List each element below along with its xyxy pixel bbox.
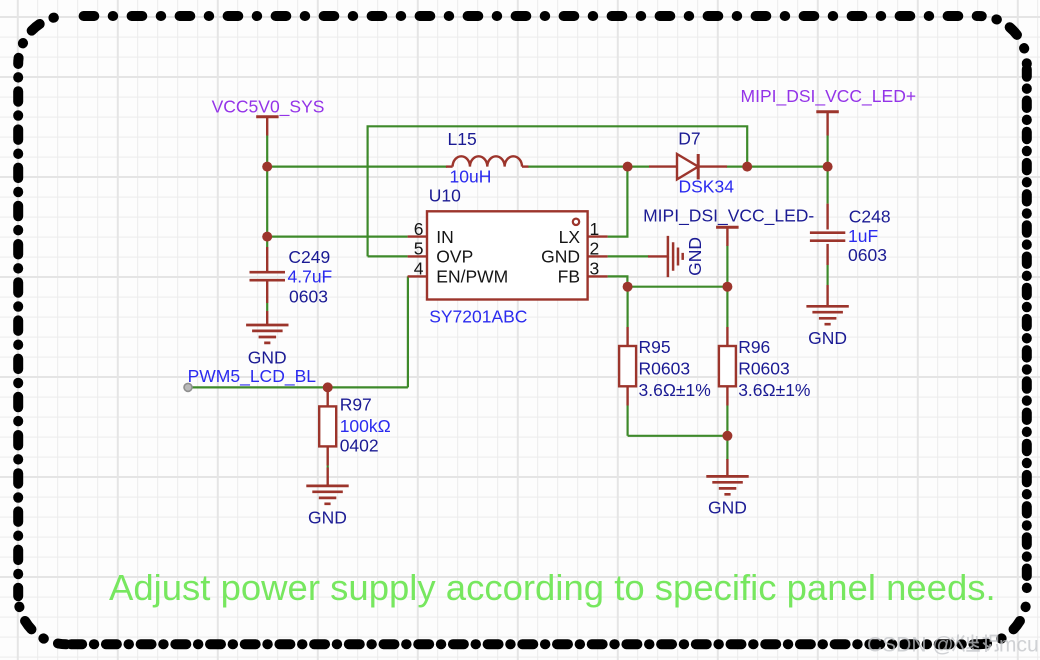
svg-text:R95: R95 <box>639 337 671 357</box>
watermark <box>867 634 1039 657</box>
wire VCC5V0_SYS vertical <box>266 135 268 247</box>
power port MIPI_DSI_VCC_LED+ <box>816 112 839 136</box>
diode D7 <box>649 154 727 179</box>
wire PWM5 row <box>188 386 408 388</box>
svg-text:D7: D7 <box>678 128 700 148</box>
svg-text:U10: U10 <box>429 186 461 206</box>
svg-text:100kΩ: 100kΩ <box>340 416 391 436</box>
junction LX node <box>623 162 633 172</box>
svg-text:R97: R97 <box>340 395 372 415</box>
svg-text:R0603: R0603 <box>639 358 691 378</box>
svg-text:L15: L15 <box>448 129 477 149</box>
junction C248 node <box>823 162 833 172</box>
svg-text:LX: LX <box>559 227 581 247</box>
wire VCC row to L15 <box>267 166 447 168</box>
junction FB right <box>722 282 732 292</box>
ground C248 <box>806 285 848 324</box>
svg-text:EN/PWM: EN/PWM <box>436 267 508 287</box>
svg-text:VCC5V0_SYS: VCC5V0_SYS <box>212 96 325 117</box>
svg-text:GND: GND <box>708 498 747 518</box>
wire pin4 riser <box>407 276 409 387</box>
svg-text:0603: 0603 <box>848 245 887 265</box>
pin 6 IN <box>408 219 454 247</box>
junction VCC-L15 <box>262 162 272 172</box>
svg-text:3.6Ω±1%: 3.6Ω±1% <box>639 380 711 400</box>
svg-text:R96: R96 <box>738 337 770 357</box>
svg-text:GND: GND <box>308 508 347 528</box>
svg-text:FB: FB <box>558 267 580 287</box>
svg-text:GND: GND <box>541 247 580 267</box>
svg-text:6: 6 <box>414 219 424 239</box>
junction R97 top <box>323 382 333 392</box>
power port VCC5V0_SYS <box>256 117 278 136</box>
pin 3 FB <box>558 259 608 287</box>
svg-text:MIPI_DSI_VCC_LED+: MIPI_DSI_VCC_LED+ <box>741 86 917 107</box>
wire node to C248 column <box>747 166 827 168</box>
wire LX pin1 riser <box>608 167 628 237</box>
svg-text:CSDN @: CSDN @ <box>867 634 954 657</box>
svg-text:Adjust power supply according: Adjust power supply according to specifi… <box>109 567 996 608</box>
svg-text:GND: GND <box>808 328 847 348</box>
wire C248 top <box>826 135 828 204</box>
wire R96 bottom <box>726 406 728 436</box>
svg-text:mcu: mcu <box>999 634 1039 657</box>
svg-text:5: 5 <box>414 239 424 259</box>
power port MIPI_DSI_VCC_LED- <box>716 227 739 246</box>
svg-text:2: 2 <box>590 239 600 259</box>
wire R95 bottom <box>626 406 628 436</box>
svg-text:3.6Ω±1%: 3.6Ω±1% <box>738 380 810 400</box>
wire R bottom row <box>628 435 728 437</box>
resistor R95 <box>619 327 636 406</box>
junction FB left <box>623 282 633 292</box>
svg-text:10uH: 10uH <box>450 167 492 187</box>
svg-text:GND: GND <box>248 348 287 368</box>
svg-text:3: 3 <box>590 259 600 279</box>
svg-text:IN: IN <box>436 227 454 247</box>
wire MIPI- stem <box>726 245 728 286</box>
wire OVP to pin5 <box>368 255 408 257</box>
resistor R97 <box>319 387 336 465</box>
svg-text:PWM5_LCD_BL: PWM5_LCD_BL <box>188 366 317 387</box>
svg-text:MIPI_DSI_VCC_LED-: MIPI_DSI_VCC_LED- <box>643 206 814 227</box>
wire VCC to pin6 <box>267 236 407 238</box>
ground C249 <box>246 311 288 343</box>
svg-text:GND: GND <box>685 237 705 276</box>
wire to bottom ground <box>726 436 728 460</box>
wire FB row <box>627 286 727 288</box>
svg-text:0603: 0603 <box>289 287 328 307</box>
wire R96 top <box>726 287 728 327</box>
svg-text:C248: C248 <box>849 207 891 227</box>
ground pin2 sideways <box>648 236 683 277</box>
pin 5 OVP <box>408 239 474 267</box>
capacitor C249 <box>250 247 286 303</box>
junction VCC-pin6 <box>262 232 272 242</box>
svg-text:R0603: R0603 <box>738 358 790 378</box>
junction diode output <box>742 162 752 172</box>
pin 4 EN/PWM <box>408 259 509 287</box>
wire C249 lower gap <box>266 303 268 311</box>
svg-text:1uF: 1uF <box>848 226 878 246</box>
resistor R96 <box>719 327 736 406</box>
svg-text:1: 1 <box>590 219 600 239</box>
svg-text:4: 4 <box>414 259 424 279</box>
wire C248 bottom <box>826 265 828 285</box>
junction R96 bottom <box>722 431 732 441</box>
svg-text:DSK34: DSK34 <box>679 177 735 197</box>
wire D7 anode <box>628 166 649 168</box>
IC U10 <box>427 211 588 299</box>
wire D7 cathode to node <box>727 166 748 168</box>
svg-text:SY7201ABC: SY7201ABC <box>429 307 527 327</box>
ground R97 <box>306 468 348 504</box>
svg-text:OVP: OVP <box>436 247 473 267</box>
capacitor C248 <box>810 204 845 265</box>
wire R97 lower gap <box>327 466 329 468</box>
svg-text:C249: C249 <box>288 247 330 267</box>
inductor L15 <box>446 156 528 166</box>
wire R95 top <box>626 287 628 327</box>
wire L15 to LX node <box>528 166 628 168</box>
wire pin2 to ground <box>608 255 649 257</box>
wire OVP bypass loop <box>368 126 748 256</box>
svg-text:0402: 0402 <box>340 436 379 456</box>
pin 1 LX <box>559 219 608 247</box>
ground R95 R96 <box>706 459 748 494</box>
no-connect endpoint PWM5 <box>184 383 192 391</box>
wire FB pin3 <box>608 276 628 286</box>
svg-text:4.7uF: 4.7uF <box>288 267 333 287</box>
pin 2 GND <box>541 239 607 267</box>
